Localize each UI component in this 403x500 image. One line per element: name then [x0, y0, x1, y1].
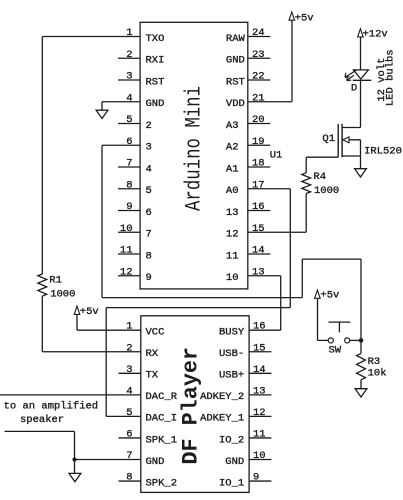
DF Player pin 11 (IO_2) stub+labels — [219, 428, 271, 446]
resistor R3 — [357, 353, 366, 379]
ground below R3 — [355, 389, 367, 397]
svg-text:A2: A2 — [226, 142, 239, 154]
wire vertical up to y=259 — [301, 259, 303, 298]
svg-text:speaker: speaker — [20, 414, 64, 426]
wire GND pin4 — [102, 102, 140, 110]
svg-text:RST: RST — [226, 76, 245, 88]
DF Player pin 8 (SPK_2) stub+labels — [119, 472, 178, 490]
U1 pin 22 (RST) stub+labels — [226, 71, 270, 89]
U1 pin 18 (A1) stub+labels — [226, 158, 270, 176]
svg-text:13: 13 — [253, 385, 266, 397]
DF Player pin 14 (USB+) stub+labels — [219, 364, 271, 382]
DF Player pin 2 (RX) stub+labels — [126, 342, 159, 360]
svg-text:GND: GND — [146, 456, 165, 468]
LED D anode triangle — [353, 70, 368, 79]
wire vertical to R4 bottom — [305, 194, 307, 233]
wire R4 top vertical — [305, 157, 307, 173]
U1 name label Arduino Mini (rotated) — [182, 86, 207, 211]
U1 pin 24 (RAW) stub+labels — [226, 27, 270, 45]
svg-text:3: 3 — [146, 142, 152, 154]
R3 value 10k — [368, 367, 387, 379]
U1 pin 10 (7) stub+labels — [118, 223, 152, 241]
DF Player pin 7 (GND) stub+labels — [126, 450, 164, 468]
node junction dot at GND — [72, 457, 76, 461]
U1 pin 16 (13) stub+labels — [226, 201, 270, 219]
wire pin6 horizontal — [102, 144, 140, 146]
svg-text:15: 15 — [252, 223, 265, 235]
svg-text:Q1: Q1 — [322, 133, 335, 145]
DF Player pin 4 (DAC_R) stub+labels — [126, 385, 178, 403]
svg-text:GND: GND — [146, 98, 165, 110]
svg-text:1: 1 — [126, 27, 132, 39]
DF Player pin 13 (ADKEY_2) stub+labels — [200, 385, 271, 403]
wire GND pin7 — [75, 459, 141, 461]
U1 pin 21 (VDD) stub+labels — [226, 92, 265, 110]
switch SW label — [329, 344, 342, 356]
LED D cathode bar — [353, 79, 372, 81]
wire VDD pin21 horizontal — [248, 101, 292, 103]
svg-text:21: 21 — [252, 92, 265, 104]
U1 pin 9 (6) stub+labels — [118, 201, 152, 219]
ground below DF GND — [69, 473, 81, 481]
wire to DAC_I pin5 — [106, 415, 141, 417]
U1 pin 3 (RST) stub+labels — [118, 71, 164, 89]
wire TXO vertical to R1 — [41, 37, 43, 274]
wire vertical down to switch junction — [360, 259, 362, 340]
power +12v — [358, 28, 388, 40]
label LED bulbs (rotated) — [385, 49, 397, 106]
svg-text:SW: SW — [329, 344, 342, 356]
svg-text:USB-: USB- — [219, 348, 244, 360]
svg-text:23: 23 — [252, 49, 265, 61]
R4 value 1000 — [314, 185, 339, 197]
R1 label — [49, 274, 62, 286]
LED label D — [351, 83, 357, 95]
svg-text:DAC_I: DAC_I — [146, 413, 178, 425]
svg-text:ADKEY_1: ADKEY_1 — [200, 413, 244, 425]
DF Player pin 9 (IO_1) stub+labels — [219, 472, 271, 490]
svg-text:9: 9 — [146, 272, 152, 284]
svg-text:20: 20 — [252, 114, 265, 126]
svg-text:RX: RX — [146, 348, 159, 360]
wire pin13 vertical down — [280, 276, 282, 330]
svg-text:6: 6 — [126, 136, 132, 148]
U1 pin 6 (3) stub+labels — [126, 136, 152, 154]
svg-text:7: 7 — [126, 450, 132, 462]
wire speaker return horizontal — [5, 430, 75, 432]
svg-text:VDD: VDD — [226, 98, 245, 110]
svg-text:15: 15 — [253, 342, 266, 354]
svg-text:Arduino Mini: Arduino Mini — [182, 86, 207, 211]
U1 pin 23 (GND) stub+labels — [226, 49, 270, 67]
svg-text:10: 10 — [226, 272, 239, 284]
svg-text:to an amplified: to an amplified — [4, 401, 99, 413]
U1 pin 1 (TXO) stub+labels — [126, 27, 164, 45]
svg-text:3: 3 — [126, 364, 132, 376]
power +5v (DF Player VCC) — [74, 306, 99, 318]
svg-text:D: D — [351, 83, 357, 95]
svg-text:24: 24 — [252, 27, 265, 39]
svg-text:8: 8 — [126, 472, 132, 484]
svg-text:7: 7 — [126, 158, 132, 170]
DF Player pin 3 (TX) stub+labels — [119, 364, 159, 382]
U1 pin 8 (5) stub+labels — [118, 179, 152, 197]
wire TXO pin1 horizontal — [42, 36, 140, 38]
svg-text:17: 17 — [252, 179, 265, 191]
wire long horizontal y=297.6 — [102, 297, 302, 299]
svg-text:14: 14 — [252, 245, 265, 257]
wire A0 pin17 horizontal — [248, 188, 290, 190]
svg-text:A3: A3 — [226, 120, 239, 132]
wire +12v to LED — [360, 37, 362, 70]
svg-text:10: 10 — [253, 450, 266, 462]
svg-text:1: 1 — [126, 321, 132, 333]
svg-text:13: 13 — [252, 266, 265, 278]
U1 pin 11 (8) stub+labels — [118, 245, 152, 263]
svg-text:14: 14 — [253, 364, 266, 376]
R3 label — [368, 356, 381, 368]
svg-text:GND: GND — [226, 55, 245, 67]
svg-text:6: 6 — [126, 428, 132, 440]
wire pin13 horizontal — [248, 275, 281, 277]
svg-text:2: 2 — [146, 120, 152, 132]
svg-text:SPK_1: SPK_1 — [146, 434, 178, 446]
svg-text:SPK_2: SPK_2 — [146, 477, 178, 489]
transistor Q1 gate line — [337, 124, 339, 157]
wire to DF RX pin2 — [42, 351, 141, 353]
svg-text:2: 2 — [126, 342, 132, 354]
svg-text:22: 22 — [252, 71, 265, 83]
svg-text:TX: TX — [146, 370, 159, 382]
svg-text:1000: 1000 — [50, 289, 75, 301]
U1 pin 2 (RXI) stub+labels — [118, 49, 164, 67]
LED emission arrow 1 — [345, 70, 356, 77]
svg-text:IRL520: IRL520 — [364, 145, 402, 157]
svg-text:ADKEY_2: ADKEY_2 — [200, 391, 244, 403]
svg-text:12: 12 — [120, 266, 133, 278]
U1 pin 17 (A0) stub+labels — [226, 179, 265, 197]
U1 pin 4 (GND) stub+labels — [126, 92, 164, 110]
svg-text:5: 5 — [126, 114, 132, 126]
svg-text:12: 12 — [226, 229, 239, 241]
wire to BUSY pin16 — [249, 329, 281, 331]
svg-text:+12v: +12v — [363, 28, 388, 40]
U1 pin 13 (10) stub+labels — [226, 266, 265, 284]
text speaker — [20, 414, 64, 426]
svg-text:RXI: RXI — [146, 55, 165, 67]
svg-text:USB+: USB+ — [219, 370, 244, 382]
wire VCC pin1 — [77, 313, 141, 330]
svg-text:DAC_R: DAC_R — [146, 391, 178, 403]
wire pin15 horizontal — [248, 231, 306, 233]
power +5v (top right) — [289, 12, 314, 24]
wire junction to R3 — [360, 340, 362, 353]
wire pin6 vertical down — [101, 145, 103, 297]
DF Player pin 12 (ADKEY_1) stub+labels — [200, 407, 271, 425]
svg-text:8: 8 — [146, 250, 152, 262]
svg-text:7: 7 — [146, 229, 152, 241]
text to an amplified — [4, 401, 99, 413]
svg-text:DF Player: DF Player — [179, 347, 204, 465]
svg-text:4: 4 — [146, 163, 152, 175]
svg-text:19: 19 — [252, 136, 265, 148]
label 12 volt (rotated) — [376, 58, 388, 102]
svg-text:IO_1: IO_1 — [219, 477, 244, 489]
R4 label — [313, 171, 326, 183]
DF Player pin 1 (VCC) stub+labels — [126, 321, 164, 339]
svg-text:3: 3 — [126, 71, 132, 83]
svg-text:10k: 10k — [368, 367, 387, 379]
DF Player IC body — [141, 316, 249, 493]
svg-text:10: 10 — [120, 223, 133, 235]
LED emission arrow 2 — [347, 75, 354, 80]
svg-text:1000: 1000 — [314, 185, 339, 197]
R1 value 1000 — [50, 289, 75, 301]
svg-text:TXO: TXO — [146, 33, 165, 45]
ground below Q1 — [355, 169, 367, 177]
svg-text:8: 8 — [126, 179, 132, 191]
wire R3 to ground — [360, 380, 362, 389]
svg-text:4: 4 — [126, 385, 132, 397]
U1 pin 15 (12) stub+labels — [226, 223, 265, 241]
svg-text:5: 5 — [146, 185, 152, 197]
DF Player name label (rotated) — [179, 347, 204, 465]
DF Player pin 15 (USB-) stub+labels — [219, 342, 271, 360]
wire R1 bottom vertical — [41, 296, 43, 352]
wire vertical down to DAC_I — [105, 308, 107, 417]
wire long horizontal y=307.6 — [106, 307, 290, 309]
node junction dot at switch — [359, 338, 364, 343]
svg-text:LED bulbs: LED bulbs — [385, 49, 397, 106]
svg-text:11: 11 — [226, 250, 239, 262]
resistor R4 — [302, 173, 311, 194]
svg-text:4: 4 — [126, 92, 132, 104]
svg-text:12: 12 — [253, 407, 266, 419]
svg-text:+5v: +5v — [320, 289, 339, 301]
svg-text:R1: R1 — [49, 274, 62, 286]
svg-text:BUSY: BUSY — [219, 327, 245, 339]
svg-text:A1: A1 — [226, 163, 239, 175]
svg-text:9: 9 — [126, 201, 132, 213]
ground below pin4 — [96, 110, 108, 118]
wire to Q1 gate — [306, 156, 338, 158]
U1 pin 5 (2) stub+labels — [118, 114, 152, 132]
wire switch right contact to junction — [350, 339, 361, 341]
svg-text:IO_2: IO_2 — [219, 434, 244, 446]
svg-text:5: 5 — [126, 407, 132, 419]
U1 pin 19 (A2) stub+labels — [226, 136, 270, 154]
svg-text:RST: RST — [146, 76, 165, 88]
svg-text:U1: U1 — [270, 149, 283, 161]
wire pin17 vertical down — [289, 189, 291, 308]
svg-text:+5v: +5v — [80, 306, 99, 318]
svg-text:R3: R3 — [368, 356, 381, 368]
svg-text:13: 13 — [226, 207, 239, 219]
DF Player pin 10 (GND) stub+labels — [225, 450, 271, 468]
svg-text:16: 16 — [253, 321, 266, 333]
wire horizontal y=259 to switch — [302, 258, 361, 260]
wire LED to Q1 drain — [342, 80, 360, 127]
svg-text:16: 16 — [252, 201, 265, 213]
wire Q1 source to ground — [360, 140, 362, 169]
transistor Q1 channel line — [341, 124, 343, 157]
Q1 part IRL520 — [364, 145, 402, 157]
wire DAC_R to amplified speaker — [0, 394, 141, 396]
switch SW left contact — [328, 338, 333, 343]
transistor Q1 source bar — [342, 155, 360, 157]
svg-text:VCC: VCC — [146, 327, 165, 339]
svg-text:9: 9 — [253, 472, 259, 484]
wire VDD vertical to +5v — [291, 20, 293, 102]
svg-text:2: 2 — [126, 49, 132, 61]
svg-text:R4: R4 — [313, 171, 326, 183]
U1 pin 12 (9) stub+labels — [118, 266, 152, 284]
U1 pin 20 (A3) stub+labels — [226, 114, 270, 132]
svg-text:RAW: RAW — [226, 33, 246, 45]
transistor Q1 body arrow — [342, 137, 360, 143]
svg-text:+5v: +5v — [295, 12, 314, 24]
IC U1 Arduino Mini body — [140, 22, 248, 289]
wire +5v to switch left contact — [318, 298, 329, 340]
svg-text:6: 6 — [146, 207, 152, 219]
power +5v (switch) — [315, 289, 340, 301]
U1 pin 14 (11) stub+labels — [226, 245, 270, 263]
svg-text:11: 11 — [120, 245, 133, 257]
switch SW right contact — [345, 338, 350, 343]
resistor R1 — [38, 274, 47, 296]
svg-text:11: 11 — [253, 428, 266, 440]
DF Player pin 6 (SPK_1) stub+labels — [119, 428, 178, 446]
U1 reference designator — [270, 149, 283, 161]
DF Player pin 16 (BUSY) stub+labels — [219, 321, 266, 339]
switch SW actuator — [329, 322, 351, 332]
svg-text:A0: A0 — [226, 185, 239, 197]
DF Player pin 5 (DAC_I) stub+labels — [126, 407, 177, 425]
svg-text:18: 18 — [252, 158, 265, 170]
Q1 label — [322, 133, 335, 145]
wire speaker return vertical — [74, 431, 76, 473]
svg-text:GND: GND — [225, 456, 244, 468]
U1 pin 7 (4) stub+labels — [118, 158, 152, 176]
